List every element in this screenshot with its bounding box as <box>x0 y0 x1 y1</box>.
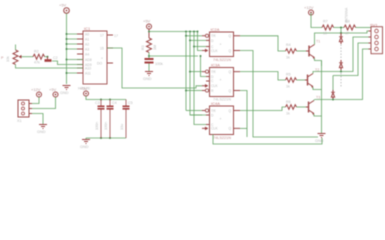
transistor Q2 <box>305 74 313 89</box>
wire P6 down to resistor row <box>311 13 322 28</box>
wire RC node to gate3 input bus <box>149 55 198 57</box>
svg-text:R8: R8 <box>345 20 350 24</box>
capacitor C3 <box>95 100 105 139</box>
junction dot <box>189 71 191 73</box>
svg-text:74LS221N: 74LS221N <box>213 136 231 140</box>
supply symbol P1 (+V circle top left-center) <box>59 3 69 14</box>
svg-text:15: 15 <box>100 46 104 50</box>
svg-text:1k: 1k <box>286 85 290 89</box>
junction dot antenna node <box>340 32 342 34</box>
wire bottom rail to ground <box>85 138 87 139</box>
wire bus tap pin A0 <box>67 33 84 35</box>
wire R5 to Q2 base <box>297 79 307 81</box>
svg-text:P: P <box>1 56 4 60</box>
svg-text:+: + <box>101 57 103 61</box>
wire bus V5 x=197.5 to gate1 clock <box>198 32 203 51</box>
wire C2 to IC pin <box>52 61 83 65</box>
junction dot <box>66 38 68 40</box>
capacitor C1 <box>145 58 154 64</box>
capacitor C5 <box>120 100 133 139</box>
svg-text:100k: 100k <box>155 62 163 66</box>
svg-text:R4: R4 <box>286 43 291 47</box>
wire bus V1 x=186 <box>185 32 187 111</box>
svg-text:CLK: CLK <box>211 49 218 53</box>
svg-text:DO: DO <box>97 61 102 65</box>
wire R3 to C1 <box>148 53 150 59</box>
svg-text:D: D <box>211 113 214 117</box>
capacitor C4 <box>104 100 117 139</box>
svg-text:+5V: +5V <box>59 3 67 8</box>
wire tap gate1 input C <box>194 46 210 48</box>
svg-text:R7: R7 <box>323 20 328 24</box>
svg-text:Q: Q <box>229 127 232 131</box>
wire resistor row to antenna node <box>340 28 342 34</box>
svg-text:R5: R5 <box>286 73 291 77</box>
svg-text:A1: A1 <box>85 37 89 41</box>
svg-text:17: 17 <box>114 34 118 38</box>
svg-text:T3: T3 <box>316 96 320 100</box>
svg-text:IC2A: IC2A <box>211 27 220 32</box>
resistor R2 <box>33 50 45 65</box>
junction dot <box>340 71 342 73</box>
svg-text:T1: T1 <box>316 40 320 44</box>
transistor Q3 <box>306 101 314 116</box>
resistor R3 (vertical) <box>141 38 157 52</box>
wire gate2 out2 to bottom rail <box>240 91 247 138</box>
junction dot <box>197 31 199 33</box>
svg-text:D: D <box>211 75 214 79</box>
svg-text:10k: 10k <box>6 56 10 62</box>
resistor R7 <box>322 20 334 36</box>
dashed coupling line lower <box>340 73 342 88</box>
svg-text:+: + <box>220 117 222 121</box>
svg-text:100n: 100n <box>104 122 108 130</box>
svg-text:IC4A: IC4A <box>211 101 220 106</box>
wire gate3 ground pin bottom rail <box>213 135 322 145</box>
junction dot <box>66 72 68 74</box>
connector X1 (3-pin, bottom left) <box>17 100 32 123</box>
junction dots cap rail <box>100 99 102 101</box>
wire bus tap pin A7 <box>67 72 84 74</box>
diode D2 <box>339 60 343 70</box>
svg-text:A11: A11 <box>85 71 91 75</box>
wire into pin 58 <box>67 59 84 61</box>
resistor R6 <box>286 100 297 116</box>
svg-text:17: 17 <box>100 33 104 37</box>
IC1 right pin stubs <box>107 35 113 63</box>
svg-text:A4: A4 <box>85 52 89 56</box>
svg-text:10: 10 <box>323 32 327 36</box>
svg-text:+12V: +12V <box>304 5 314 10</box>
wire node across <box>333 43 369 76</box>
wire bus tap pin A3 <box>67 48 84 50</box>
svg-text:Q: Q <box>229 34 232 38</box>
ground G3 <box>39 125 47 129</box>
diode D3 <box>331 90 335 100</box>
svg-text:100n: 100n <box>95 122 99 130</box>
junction dot RC node <box>148 55 150 57</box>
supply symbol P5 <box>49 87 58 97</box>
transistor Q1 <box>306 45 315 60</box>
wire pot top lead <box>15 45 17 51</box>
supply arrow P6 (top right) <box>304 5 314 15</box>
svg-text:R3: R3 <box>141 45 145 50</box>
junction dot <box>66 48 68 50</box>
wire cap bank bottom rail <box>86 137 126 139</box>
junction dot <box>66 33 68 35</box>
svg-text:1M: 1M <box>153 45 157 50</box>
junction dot <box>185 35 187 37</box>
ground G2 <box>145 72 153 76</box>
junction dot on collector rail <box>332 99 334 101</box>
gate IC2A box <box>202 27 240 62</box>
IC1 left pin stubs <box>77 34 83 73</box>
svg-text:+: + <box>220 43 222 47</box>
svg-text:D: D <box>211 39 214 43</box>
wire X1 pin1 to P4 <box>32 97 39 104</box>
svg-text:1k: 1k <box>286 112 290 116</box>
svg-text:R: R <box>211 89 214 93</box>
svg-text:A10: A10 <box>85 66 91 70</box>
wire X1 pin3 to ground <box>32 114 43 125</box>
wire collector rail to pin4 column <box>315 49 369 100</box>
wire tap gate3 input B <box>190 114 210 116</box>
ground G5 <box>318 134 326 138</box>
svg-text:GND: GND <box>37 130 46 134</box>
svg-text:1k: 1k <box>286 56 290 60</box>
ground G4 <box>82 140 90 144</box>
svg-text:C5: C5 <box>128 101 133 105</box>
junction dot <box>189 31 191 33</box>
wire R6 to Q3 base <box>297 106 307 108</box>
svg-text:+5V: +5V <box>49 87 57 92</box>
svg-text:+: + <box>220 78 222 82</box>
svg-text:C4: C4 <box>112 101 117 105</box>
wire wiper to R2 <box>22 56 34 58</box>
svg-text:CLK: CLK <box>211 84 218 88</box>
capacitor C2 (polarized, horizontal body) <box>45 56 58 62</box>
wire Q3 collector to rail y99 <box>313 100 315 101</box>
wire bus V4 x=198 tap gate2 input B <box>201 56 210 77</box>
svg-text:Q: Q <box>229 109 232 113</box>
junction dot <box>185 90 187 92</box>
svg-text:47k: 47k <box>34 61 40 65</box>
wire bus V2 x=190 <box>190 32 202 116</box>
wire bus tap pin A1 <box>67 38 84 40</box>
wire tap gate2 input A <box>190 71 202 73</box>
wire P1 to address bus <box>66 13 68 84</box>
junction dot <box>185 31 187 33</box>
svg-text:+5V: +5V <box>143 19 151 24</box>
svg-text:SV1: SV1 <box>370 23 378 28</box>
svg-text:X1: X1 <box>17 119 22 123</box>
wire Q1 emitter down to rail <box>315 58 322 66</box>
svg-text:IC3A: IC3A <box>211 62 220 67</box>
wire R7 to R8 <box>334 27 344 29</box>
svg-text:R2: R2 <box>34 50 39 54</box>
wire gate1 out to R4 <box>240 36 286 51</box>
wire Q2 collector up then to pin3 column <box>313 37 369 74</box>
svg-text:TR: TR <box>211 109 216 113</box>
svg-text:GND: GND <box>60 91 69 95</box>
resistor R8 <box>344 20 356 36</box>
wire Q2 emitter to rail <box>313 87 322 90</box>
gate IC3A box <box>202 62 240 101</box>
wire tap gate2 bubble input (from V1) <box>186 90 202 92</box>
wire bus tap pin A2 <box>67 43 84 45</box>
junction dot <box>193 46 195 48</box>
wire Q3 emitter to ground rail <box>314 114 322 116</box>
svg-text:+5V: +5V <box>80 86 88 91</box>
diode D1 <box>339 33 343 44</box>
junction dot node <box>47 56 49 58</box>
svg-text:C: C <box>211 79 214 83</box>
svg-text:A3: A3 <box>85 47 89 51</box>
svg-text:TR: TR <box>211 70 216 74</box>
wire P2 down <box>148 29 150 38</box>
connector SV1 <box>369 23 383 54</box>
wire DOUT pin to gate2 lower input (long route) <box>107 48 202 88</box>
resistor R4 <box>286 43 297 60</box>
svg-text:10u: 10u <box>120 124 124 130</box>
svg-text:+12V: +12V <box>31 87 41 92</box>
svg-text:Q: Q <box>229 49 232 53</box>
wire X1 pin2 to P5 <box>32 97 56 109</box>
wire tap gate3 input A <box>186 110 202 112</box>
svg-text:A2: A2 <box>85 42 89 46</box>
wire tap gate1 input B <box>190 39 210 41</box>
wire D2 bottom node <box>340 70 342 72</box>
svg-text:TR: TR <box>211 34 216 38</box>
junction dot <box>200 55 202 57</box>
wire R2 to node <box>45 56 48 58</box>
svg-text:CLK: CLK <box>211 127 218 131</box>
wire tap gate1 input A <box>186 35 202 37</box>
svg-text:C2: C2 <box>53 56 58 60</box>
wire R8 into connector <box>356 27 371 29</box>
svg-text:GND: GND <box>143 77 152 81</box>
svg-text:AD8: AD8 <box>85 58 92 62</box>
wire node down to D3 <box>332 76 334 91</box>
junction dot VCC node <box>148 31 150 33</box>
wire pot bottom to pin row <box>16 65 84 69</box>
wire VCC node to gate bus <box>149 31 198 33</box>
wire P3 to cap rail <box>86 96 126 100</box>
svg-text:Q: Q <box>229 89 232 93</box>
wire gate3 out2 bottom rail <box>240 127 247 129</box>
junction dot <box>189 39 191 41</box>
gate IC4A box <box>202 101 240 140</box>
junction dot <box>193 31 195 33</box>
supply symbol P4 <box>31 87 42 97</box>
wire gate1 out2 down to bottom rail <box>240 51 318 138</box>
svg-text:A0: A0 <box>85 32 89 36</box>
junction dot <box>66 43 68 45</box>
resistor R5 <box>286 73 297 89</box>
svg-text:C3: C3 <box>95 101 100 105</box>
supply symbol P3 (cap bank) <box>80 86 89 96</box>
ground G1 under bus <box>63 86 71 90</box>
potentiometer R1 <box>6 50 22 64</box>
wire gate2 out to R5 <box>240 72 286 80</box>
wire bus V3 x=194 <box>194 32 210 125</box>
svg-text:47: 47 <box>345 32 349 36</box>
wire gate3 out to R6 <box>240 107 286 111</box>
wire D1 to D2 <box>340 45 342 60</box>
IC1 pin name labels <box>85 32 104 75</box>
svg-text:Q: Q <box>229 70 232 74</box>
svg-text:R6: R6 <box>286 100 291 104</box>
wire Q1 collector up to antenna node <box>315 31 369 45</box>
supply symbol P2 (top of RC) <box>143 19 152 30</box>
wire C1 to ground <box>148 64 150 72</box>
wire emitter rail down <box>321 61 323 134</box>
svg-text:GND: GND <box>80 145 89 149</box>
svg-text:IC1: IC1 <box>84 26 91 31</box>
wire R4 to Q1 base <box>297 50 307 52</box>
IC1 encoder box <box>83 31 107 84</box>
